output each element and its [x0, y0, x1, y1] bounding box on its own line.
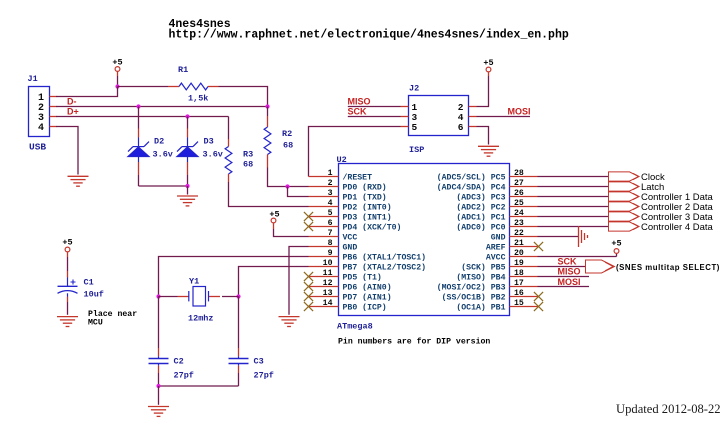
- junction node PD0/PD1 tie: [285, 184, 289, 188]
- svg-text:4: 4: [38, 123, 44, 134]
- no-connect X marks U2 pins 16,15: [534, 292, 543, 301]
- ic U2 right pin numbers 28-15: [514, 169, 524, 308]
- wire R3 to U2 pin4: [229, 182, 309, 207]
- no-connect X marks U2 pins 5,6: [304, 212, 313, 221]
- junction node D- / D2: [136, 104, 140, 108]
- connector J2 right pin stubs: [469, 106, 477, 108]
- svg-text:(MOSI/OC2) PB3: (MOSI/OC2) PB3: [437, 282, 506, 292]
- ic U2 right pin names: [437, 172, 506, 312]
- svg-text:(ADC4/SDA) PC4: (ADC4/SDA) PC4: [437, 182, 506, 192]
- svg-text:27pf: 27pf: [254, 371, 274, 381]
- svg-text:R2: R2: [282, 129, 292, 139]
- wire USB pin1 to +5 rail: [56, 87, 118, 97]
- ic U2 left pin names: [343, 172, 427, 312]
- svg-text:+5: +5: [62, 238, 72, 248]
- +5 supply symbol above J2: [486, 67, 491, 72]
- port flag Clock: [609, 172, 640, 181]
- svg-text:ATmega8: ATmega8: [337, 322, 373, 332]
- svg-text:PB7 (XTAL2/TOSC2): PB7 (XTAL2/TOSC2): [343, 262, 427, 272]
- svg-text:MOSI: MOSI: [558, 277, 581, 287]
- svg-text:MOSI: MOSI: [508, 106, 531, 116]
- svg-text:ISP: ISP: [409, 145, 424, 155]
- svg-text:Pin numbers are for DIP versio: Pin numbers are for DIP version: [338, 337, 490, 347]
- svg-text:D+: D+: [67, 106, 79, 116]
- svg-text:C1: C1: [84, 278, 94, 288]
- svg-text:http://www.raphnet.net/electro: http://www.raphnet.net/electronique/4nes…: [169, 29, 569, 42]
- svg-text:PD0 (RXD): PD0 (RXD): [343, 182, 387, 192]
- svg-text:AREF: AREF: [486, 243, 506, 252]
- wire U2 GND pin8 to ground: [289, 247, 309, 315]
- wire U2 pin20 AVCC to +5: [538, 256, 617, 258]
- wire +5 to C1: [67, 252, 69, 257]
- crystal Y1: [193, 287, 206, 307]
- svg-text:U2: U2: [337, 155, 347, 165]
- capacitor C3: [229, 358, 249, 360]
- svg-text:Place near: Place near: [88, 309, 137, 319]
- sideways ground at U2 pin22: [579, 226, 588, 247]
- port flag Controller 3 Data: [609, 212, 640, 221]
- svg-text:PD5 (T1): PD5 (T1): [343, 272, 382, 282]
- wire J2 pin6 to ground: [477, 127, 489, 145]
- ground below C1: [57, 317, 78, 327]
- svg-text:10uf: 10uf: [84, 290, 104, 300]
- svg-text:3.6v: 3.6v: [153, 150, 173, 160]
- svg-text:USB: USB: [29, 142, 46, 153]
- svg-text:MISO: MISO: [558, 266, 581, 276]
- svg-text:AVCC: AVCC: [486, 253, 506, 262]
- svg-text:MISO: MISO: [348, 96, 371, 106]
- svg-text:D3: D3: [204, 137, 214, 147]
- wire R2 to U2 pin2: [268, 168, 309, 187]
- svg-text:+5: +5: [112, 58, 122, 68]
- +5 supply symbol above C1: [65, 247, 70, 252]
- svg-text:PB0 (ICP): PB0 (ICP): [343, 302, 387, 312]
- svg-text:1,5k: 1,5k: [188, 94, 208, 104]
- svg-text:PD1 (TXD): PD1 (TXD): [343, 192, 387, 202]
- port flag Controller 4 Data: [609, 222, 640, 231]
- connector J1 box: [29, 87, 50, 137]
- +5 supply symbol above USB: [115, 67, 120, 72]
- svg-text:6: 6: [458, 122, 464, 133]
- zener diode D3: [187, 117, 189, 129]
- wires U2 pins 28-23 to port flags: [538, 177, 609, 227]
- svg-text:5: 5: [412, 122, 418, 133]
- wire C3 bottom to C2 bottom: [159, 385, 239, 387]
- no-connect X mark U2 pin21 AREF: [534, 242, 543, 251]
- svg-text:SCK: SCK: [558, 256, 578, 266]
- wire U2 PB6 pin9 to crystal left: [159, 257, 309, 297]
- zener diode D2: [138, 107, 140, 129]
- resistor R2: [267, 107, 269, 117]
- wire crystal left to C2: [158, 297, 160, 349]
- wire to ground under C2: [158, 386, 160, 405]
- wire U2 PB7 pin10 to crystal right: [239, 267, 309, 297]
- svg-text:(ADC0) PC0: (ADC0) PC0: [456, 222, 505, 232]
- svg-text:(ADC1) PC1: (ADC1) PC1: [456, 212, 505, 222]
- capacitor C1 polarized: [67, 278, 69, 287]
- wire U2 pin19 SCK: [538, 266, 586, 268]
- port flag Controller 2 Data: [609, 202, 640, 211]
- wire U2 pin17 MOSI: [538, 286, 590, 288]
- svg-text:Controller 4 Data: Controller 4 Data: [641, 222, 714, 233]
- wire MISO to J2 pin1: [348, 106, 401, 108]
- junction node +5 rail: [115, 84, 119, 88]
- wire C2 bottom to ground node: [158, 364, 160, 366]
- ic U2 left pin numbers 1-14: [323, 169, 333, 308]
- ground below U2 GND: [279, 317, 300, 327]
- wire J2 pin4 MOSI: [477, 116, 531, 118]
- svg-text:Y1: Y1: [189, 277, 199, 287]
- svg-text:PB6 (XTAL1/TOSC1): PB6 (XTAL1/TOSC1): [343, 252, 427, 262]
- wire D2 bottom to D3 bottom: [139, 185, 188, 187]
- ground below USB: [68, 176, 89, 186]
- svg-text:+5: +5: [269, 210, 279, 220]
- ic U2 right pin stubs: [510, 177, 539, 307]
- +5 supply symbol at AVCC: [614, 249, 619, 254]
- svg-text:C3: C3: [254, 357, 264, 367]
- junction node D- / R1 / R2: [265, 104, 269, 108]
- junction node C2/C3 ground: [156, 384, 160, 388]
- ground below C2: [148, 407, 169, 417]
- svg-text:GND: GND: [491, 233, 506, 242]
- resistor R3: [228, 117, 230, 140]
- wire crystal right to C3: [238, 297, 240, 349]
- wire +5 circle to rail junction: [117, 72, 119, 76]
- ground below D3: [177, 196, 198, 206]
- wire tie to U2 pin3: [288, 187, 309, 197]
- svg-text:VCC: VCC: [343, 233, 358, 242]
- connector J1 pin stubs: [50, 96, 57, 98]
- svg-text:68: 68: [243, 160, 253, 170]
- ground below J2: [478, 146, 499, 156]
- svg-text:PD4 (XCK/T0): PD4 (XCK/T0): [343, 222, 402, 232]
- svg-text:68: 68: [283, 141, 293, 151]
- port flag Controller 1 Data: [609, 192, 640, 201]
- ic U2 box: [339, 164, 510, 316]
- wire U2 pin22 GND to analog ground: [538, 236, 579, 238]
- svg-text:(SNES multitap SELECT): (SNES multitap SELECT): [616, 263, 720, 272]
- resistor R1: [168, 86, 179, 88]
- svg-text:Updated 2012-08-22: Updated 2012-08-22: [616, 402, 720, 416]
- no-connect X marks U2 pins 11-14: [304, 272, 313, 281]
- wire R1 right to D- column: [219, 87, 268, 107]
- wire J2 pin2 to +5: [477, 76, 489, 107]
- connector J2 left pin stubs: [401, 106, 409, 108]
- junction node D3 / ground: [185, 184, 189, 188]
- wire crystal right lead: [209, 296, 221, 298]
- svg-text:(OC1A) PB1: (OC1A) PB1: [456, 302, 505, 312]
- capacitor C2: [149, 358, 169, 360]
- wire USB pin4 to ground: [56, 127, 78, 175]
- wire C1 to ground: [67, 297, 69, 303]
- svg-text:J2: J2: [409, 84, 419, 94]
- connector J2 box: [409, 96, 469, 136]
- wire U2 pin18 MISO: [538, 276, 590, 278]
- svg-text:12mhz: 12mhz: [188, 314, 214, 324]
- port flag Latch: [609, 182, 640, 191]
- svg-text:GND: GND: [343, 243, 358, 252]
- svg-text:(ADC2) PC2: (ADC2) PC2: [456, 202, 505, 212]
- wire to ground under diodes: [187, 186, 189, 195]
- svg-text:J1: J1: [28, 74, 38, 84]
- svg-text:D2: D2: [154, 137, 164, 147]
- svg-text:PD6 (AIN0): PD6 (AIN0): [343, 282, 392, 292]
- svg-text:(SCK) PB5: (SCK) PB5: [461, 262, 505, 272]
- svg-text:(ADC3) PC3: (ADC3) PC3: [456, 192, 505, 202]
- svg-text:PD2 (INT0): PD2 (INT0): [343, 202, 392, 212]
- svg-text:SCK: SCK: [348, 106, 368, 116]
- port flag SNES multitap SELECT: [586, 260, 615, 273]
- ic U2 left pin stubs: [309, 177, 339, 307]
- junction node D+ / D3: [185, 114, 189, 118]
- svg-text:D-: D-: [67, 96, 77, 106]
- svg-text:R3: R3: [243, 150, 253, 160]
- wire +5 rail to R1: [118, 86, 169, 88]
- svg-text:(MISO) PB4: (MISO) PB4: [456, 272, 505, 282]
- svg-text:MCU: MCU: [88, 319, 103, 328]
- wire D+ net USB pin3 to R3: [56, 116, 229, 118]
- svg-text:R1: R1: [178, 65, 188, 75]
- svg-text:PD7 (AIN1): PD7 (AIN1): [343, 292, 392, 302]
- wire J2 pin5 to U2 /RESET: [309, 127, 401, 177]
- svg-text:(ADC5/SCL) PC5: (ADC5/SCL) PC5: [437, 172, 506, 182]
- svg-text:C2: C2: [174, 357, 184, 367]
- junction node XTAL2: [236, 294, 240, 298]
- svg-text:+5: +5: [611, 239, 621, 249]
- svg-text:(SS/OC1B) PB2: (SS/OC1B) PB2: [442, 292, 506, 302]
- wire crystal left lead: [159, 296, 178, 298]
- svg-text:/RESET: /RESET: [343, 172, 373, 182]
- wire U2 VCC pin7 to +5: [274, 229, 309, 237]
- svg-text:27pf: 27pf: [174, 371, 194, 381]
- junction node XTAL1: [156, 294, 160, 298]
- svg-text:+5: +5: [483, 58, 493, 68]
- svg-text:3.6v: 3.6v: [203, 150, 223, 160]
- wire C3 bottom to ground node: [238, 364, 240, 366]
- wire D- net USB pin2 to R2 junction: [56, 106, 268, 108]
- wire SCK to J2 pin3: [348, 116, 401, 118]
- +5 supply symbol at VCC: [271, 218, 276, 223]
- svg-text:PD3 (INT1): PD3 (INT1): [343, 212, 392, 222]
